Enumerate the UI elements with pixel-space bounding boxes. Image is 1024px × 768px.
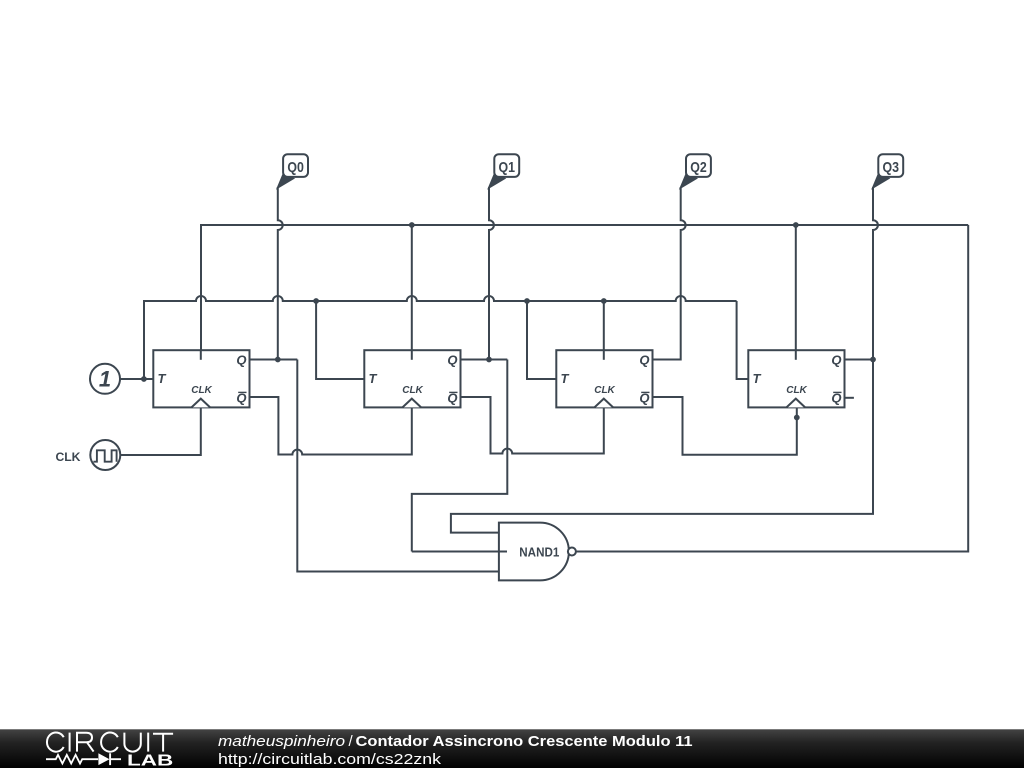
svg-text:CLK: CLK <box>786 385 807 396</box>
logo resistor-diode rule <box>46 755 98 764</box>
svg-text:T: T <box>561 371 570 386</box>
wire Q of FF4 to node <box>845 359 873 361</box>
wire Q of FF3 up to flag Q2 (hop over bus1) <box>653 187 686 360</box>
svg-text:Q0: Q0 <box>287 159 304 176</box>
svg-text:matheuspinheiro/Contador Assin: matheuspinheiro/Contador Assincrono Cres… <box>218 733 693 750</box>
wire Q-bar FF3 to CLK FF4 <box>653 397 797 455</box>
wire node Q3 up to flag (hop over bus1) <box>873 187 878 360</box>
junction node Q0 <box>275 357 281 363</box>
source V1 logic 1 <box>90 364 120 394</box>
wire bus2 left drop to node of source 1 <box>143 300 145 379</box>
node flag Q2 <box>680 154 711 188</box>
square wave glyph <box>93 450 116 461</box>
clock edge mark FF4 <box>787 399 806 408</box>
wire NAND1 input 2 stub <box>412 551 507 553</box>
flag box Q3 <box>878 154 903 177</box>
pin stub top FF4 <box>795 350 797 360</box>
wire Q3 down to NAND1 input 1 <box>451 360 873 533</box>
clock edge mark FF1 <box>192 399 211 408</box>
svg-text:Q: Q <box>447 353 457 368</box>
flip-flop FF2 body <box>364 350 460 407</box>
junction bus2 T3 <box>524 298 530 304</box>
flag tail Q1 <box>488 174 505 189</box>
wire T input FF4 <box>737 301 749 379</box>
junction bus2 T2 <box>313 298 319 304</box>
pin stub top FF3 <box>603 350 605 360</box>
svg-text:http://circuitlab.com/cs22znk: http://circuitlab.com/cs22znk <box>218 751 442 768</box>
wire Q-bar FF2 to CLK FF3 (hop over Q1 down leg) <box>461 397 604 454</box>
svg-text:LAB: LAB <box>127 753 173 768</box>
wire Q1 down to NAND1 input 2 <box>412 360 508 552</box>
svg-text:Q: Q <box>639 353 649 368</box>
junction node Q3 <box>870 357 876 363</box>
wire bus2 logic-1 distribution (horizontal, y=301, hops at crossings) <box>143 296 737 301</box>
wire Q of FF1 to node <box>250 359 298 361</box>
node flag Q0 <box>277 154 308 188</box>
flag box Q0 <box>283 154 308 177</box>
svg-text:CLK: CLK <box>55 450 80 464</box>
svg-text:CLK: CLK <box>191 385 212 396</box>
wire bus2 drop to FF3 top pin <box>603 301 605 360</box>
wire T input FF2 <box>316 301 364 379</box>
wire Q-bar FF1 to CLK FF2 (hop over Q0 vertical) <box>250 397 412 455</box>
logo CIRCUIT lettering <box>47 732 173 751</box>
flip-flop FF4 body <box>748 350 844 407</box>
flag box Q1 <box>494 154 519 177</box>
svg-text:NAND1: NAND1 <box>519 545 559 559</box>
svg-text:CLK: CLK <box>402 385 423 396</box>
wire bus1 drop to FF4 top pin <box>795 225 797 360</box>
wire CLK source to CLK pin FF1 <box>121 399 201 455</box>
source V1 body circle <box>90 364 120 394</box>
svg-text:T: T <box>753 371 762 386</box>
clock edge mark FF2 <box>403 399 422 408</box>
wire bus1 drop to FF1 top pin <box>200 224 202 360</box>
flag tail Q0 <box>277 174 294 189</box>
svg-text:CLK: CLK <box>594 385 615 396</box>
svg-text:Q3: Q3 <box>883 159 900 176</box>
svg-text:Q: Q <box>236 353 246 368</box>
node flag Q1 <box>488 154 519 188</box>
flag tail Q3 <box>872 174 889 189</box>
wire bus1 drop to FF2 top pin <box>411 225 413 360</box>
wire bus1 NAND output to reset pins (horizontal, y=225) <box>200 224 968 226</box>
overbar of Q-bar label FF2 <box>449 391 457 393</box>
footer bar <box>0 729 1024 768</box>
pin stub top FF2 <box>411 350 413 360</box>
wire Q-bar FF4 stub (unconnected) <box>845 397 854 399</box>
wire bus1 right feedback leg <box>576 225 968 552</box>
wire source 1 to T input FF1 <box>121 378 154 380</box>
svg-text:1: 1 <box>99 367 111 392</box>
wire node Q0 up to flag (hop over bus1) <box>278 187 283 360</box>
junction bus2 FF3 top <box>601 298 607 304</box>
svg-text:Q2: Q2 <box>690 159 707 176</box>
pin stub top FF1 <box>200 350 202 360</box>
NAND1 gate body <box>499 523 569 581</box>
flag tail Q2 <box>680 174 697 189</box>
overbar of Q-bar label FF3 <box>641 391 649 393</box>
junction node Q1 <box>486 357 492 363</box>
flag box Q2 <box>686 154 711 177</box>
svg-text:Q: Q <box>831 353 841 368</box>
source CLK body circle <box>90 440 120 470</box>
flip-flop FF3 body <box>556 350 652 407</box>
wire Q0 down to NAND1 input 3 <box>297 360 500 572</box>
svg-text:T: T <box>158 371 167 386</box>
svg-text:T: T <box>369 371 378 386</box>
inversion bubble NAND1 <box>568 548 576 556</box>
wire T input FF3 <box>527 301 556 379</box>
op NAND1 gate <box>412 523 576 581</box>
node flag Q3 <box>872 154 903 188</box>
junction bus1 FF4 top <box>793 222 799 228</box>
junction bus1 FF2 top <box>409 222 415 228</box>
wire node Q1 up to flag (hop over bus1) <box>489 187 494 360</box>
overbar of Q-bar label FF1 <box>238 391 246 393</box>
wire Q of FF2 to node <box>461 359 508 361</box>
flip-flop FF1 <box>153 350 249 407</box>
junction CLK pin FF4 <box>794 415 800 421</box>
overbar of Q-bar label FF4 <box>833 391 841 393</box>
svg-text:Q1: Q1 <box>499 159 516 176</box>
flip-flop FF1 body <box>153 350 249 407</box>
source CLK square wave <box>55 440 120 470</box>
flip-flop FF2 <box>364 350 460 407</box>
junction on wire 1-to-T1 <box>141 376 147 382</box>
flip-flop FF3 <box>556 350 652 407</box>
clock edge mark FF3 <box>595 399 614 408</box>
flip-flop FF4 <box>748 350 844 407</box>
